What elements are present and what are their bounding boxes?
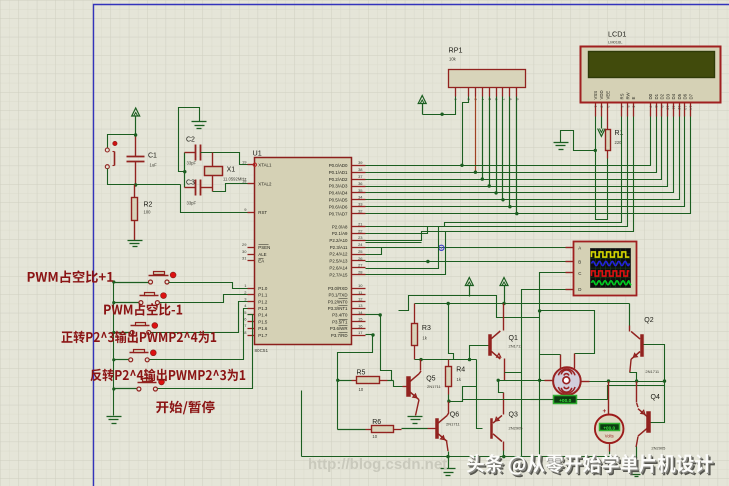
svg-text:LCD1: LCD1 (608, 30, 626, 39)
wire R5 left lead (338, 380, 352, 382)
svg-text:P0.5/AD5: P0.5/AD5 (329, 198, 348, 203)
svg-text:6: 6 (632, 106, 636, 108)
scope input C (566, 272, 574, 274)
wire Q4 collector down to ground (636, 437, 638, 448)
junction (blue) on P2.3 line (439, 245, 444, 250)
pin P0.4/AD4 (pin 35) right stub (352, 192, 366, 194)
wire bottom rail (302, 456, 610, 458)
scope trace C red (592, 271, 630, 276)
wire R5 right to Q5 base (394, 381, 403, 387)
transistor Q2 2N1711 (mirrored) (641, 335, 644, 357)
wire Q2 emitter to rail (630, 359, 631, 372)
wire LCD D5 to P0.5 (366, 117, 680, 200)
pin P1.4 (pin 5) left stub (248, 314, 255, 316)
svg-text:19: 19 (242, 160, 247, 165)
junction reset node (134, 183, 137, 186)
junction crystal left (183, 170, 186, 173)
transistor Q5 2N1711 (407, 377, 411, 397)
scope trace B blue (592, 261, 630, 265)
junction Q1 emitter / rail (497, 379, 500, 382)
resistor R4 (446, 367, 452, 387)
svg-text:2N2905: 2N2905 (651, 446, 666, 451)
label 反转P2^4输出PWMP2^3为1 (90, 369, 245, 382)
LCD LCD1 body (581, 47, 721, 103)
wire Q1 collector up to rail2 (503, 304, 505, 331)
wire R5 right lead (380, 380, 388, 382)
LCD pin D5 (pin 12) (679, 103, 681, 117)
wire node-A down to Q3 base (477, 360, 483, 429)
RP1 pin 7 stub (502, 88, 504, 97)
wire display feed (540, 399, 554, 401)
push button PWM占空比-1 (139, 301, 143, 305)
ground crystal top (192, 121, 207, 123)
svg-text:XTAL1: XTAL1 (258, 162, 272, 167)
svg-text:13: 13 (683, 106, 687, 110)
wire LCD D0 to P0.0 (366, 117, 651, 166)
wire Q4 emitter up to rail (637, 403, 638, 407)
svg-text:P0.2/AD2: P0.2/AD2 (329, 177, 348, 182)
wire +V rail1 (399, 296, 540, 318)
pin P3.5/T1 (pin 15) right stub (352, 321, 366, 323)
svg-text:10: 10 (358, 283, 363, 288)
pin P0.5/AD5 (pin 34) right stub (352, 199, 366, 201)
junction R4/Q6 collector node (447, 400, 450, 403)
motor top stub right (574, 354, 576, 369)
pin P2.4/A12 (pin 25) right stub (352, 254, 366, 256)
svg-text:9: 9 (660, 106, 664, 108)
wire C1 bottom to junction (135, 162, 137, 185)
svg-text:U1: U1 (253, 149, 262, 158)
wire button 正转P2^3输出PWMP2^4为1 to P1 (151, 302, 248, 333)
svg-text:PSEN: PSEN (258, 245, 270, 250)
wire LCD D7 to P0.7 (366, 117, 691, 214)
svg-text:C2: C2 (186, 137, 195, 144)
ground Q5 emitter (408, 416, 423, 418)
power terminal (VCC arrow) rail1 (465, 278, 473, 286)
svg-text:P1.1: P1.1 (258, 293, 268, 298)
pin P3.7/RD (pin 17) right stub (352, 335, 366, 337)
junction RP1 pin9 / P0.7 (515, 212, 518, 215)
scope input D (566, 289, 574, 291)
svg-text:RW: RW (625, 91, 630, 99)
RP1 pin 4 stub (482, 88, 484, 97)
wire motor left lead (545, 380, 554, 382)
wire RP1 pin2 to P0.0 net (463, 97, 469, 166)
svg-text:XTAL2: XTAL2 (258, 182, 272, 187)
pin P2.1/A9 (pin 22) right stub (352, 233, 366, 235)
wire rail2 zig to node-A (449, 304, 454, 360)
transistor Q3 2N2905 (PNP) (491, 419, 493, 439)
svg-text:+00.0: +00.0 (559, 398, 571, 404)
svg-text:P1.6: P1.6 (258, 326, 268, 331)
svg-text:80C51: 80C51 (255, 348, 269, 353)
wire drive line under motor (462, 399, 464, 401)
push button 正转P2^3输出PWMP2^4为1 (130, 331, 134, 335)
svg-text:P0.6/AD6: P0.6/AD6 (329, 204, 348, 209)
svg-text:8: 8 (654, 106, 658, 108)
svg-text:7: 7 (648, 106, 652, 108)
wire R6 left lead (338, 429, 366, 431)
wire Q5 collector up (419, 371, 421, 374)
svg-text:37: 37 (358, 174, 363, 179)
svg-text:14: 14 (358, 310, 363, 315)
svg-text:P2.6/A14: P2.6/A14 (329, 265, 348, 270)
svg-text:R1: R1 (615, 130, 624, 137)
junction rail2/Q1 collector (502, 302, 505, 305)
svg-text:R4: R4 (456, 367, 465, 374)
LCD pin D4 (pin 11) (673, 103, 675, 117)
pin P1.3 (pin 4) left stub (248, 308, 255, 310)
pin P0.6/AD6 (pin 33) right stub (352, 206, 366, 208)
crystal X1 body (205, 167, 223, 176)
wire motor-left rail (498, 380, 554, 382)
wire P2.2 jog to A line (366, 242, 422, 244)
LCD pin D6 (pin 13) (684, 103, 686, 117)
ground Q6 emitter (441, 468, 456, 470)
wire C2 right to XTAL1 (201, 153, 248, 165)
wire Q2 collector red (629, 326, 631, 332)
wire button PWM占空比-1 to P1 (160, 295, 248, 303)
svg-text:P2.7/A15: P2.7/A15 (329, 272, 348, 277)
wire Q6col to drive line (449, 400, 531, 402)
LCD pin D0 (pin 7) (650, 103, 652, 117)
svg-text:P1.7: P1.7 (258, 333, 268, 338)
svg-text:22: 22 (358, 228, 363, 233)
ground buttons (107, 416, 122, 418)
wire voltmeter bottom lead (609, 444, 611, 452)
svg-text:Q5: Q5 (426, 376, 435, 383)
voltmeter display (600, 424, 620, 431)
svg-text:28: 28 (358, 269, 363, 274)
buttons common ground bus (113, 283, 115, 416)
wire LCD E to P2.2 route (366, 117, 634, 241)
pin P2.5/A13 (pin 26) right stub (352, 260, 366, 262)
LCD pin RS (pin 4) (621, 103, 623, 117)
power terminal (VCC arrow) rail2 / Q1 (500, 278, 508, 286)
wire reset node to RST pin (181, 185, 248, 213)
svg-text:D3: D3 (665, 93, 670, 99)
junction rail / voltmeter+ (607, 379, 610, 382)
pin P1.5 (pin 6) left stub (248, 321, 255, 323)
wire Q3 collector down to bottom rail (503, 442, 505, 451)
wire Q3 emitter up to rail (503, 393, 505, 415)
push button reset (vertical) (105, 148, 109, 152)
svg-text:P3.4/T0: P3.4/T0 (332, 313, 348, 318)
svg-text:30: 30 (242, 249, 247, 254)
pin P3.4/T0 (pin 14) right stub (352, 314, 366, 316)
svg-text:21: 21 (358, 222, 363, 227)
svg-text:VDD: VDD (599, 90, 604, 99)
svg-text:33pF: 33pF (187, 201, 197, 206)
wire LCD D6 to P0.6 (366, 117, 685, 207)
svg-text:27: 27 (358, 263, 363, 268)
ground LCD VSS (554, 142, 569, 144)
wire R3 top lead (414, 304, 416, 324)
wire button 开始/暂停 left (114, 388, 137, 390)
junction VSS node (594, 149, 597, 152)
wire C3 left lead (185, 187, 196, 189)
svg-text:D6: D6 (683, 93, 688, 99)
wire P3.4 to R5/Q5 base (366, 314, 381, 316)
wire RP1 pin9 to P0.7 net (516, 97, 518, 214)
wire R4 bottom lead (448, 387, 450, 395)
svg-text:100: 100 (144, 210, 152, 215)
oscilloscope body (574, 242, 637, 296)
push button 反转P2^4输出PWMP2^3为1 (129, 358, 133, 362)
svg-text:10: 10 (666, 106, 670, 110)
svg-text:1uF: 1uF (150, 163, 158, 168)
svg-text:33pF: 33pF (187, 161, 197, 166)
IC U1 80C51 body (255, 158, 352, 345)
svg-text:33: 33 (358, 202, 363, 207)
pin P1.1 (pin 2) left stub (248, 294, 255, 296)
wire R4 top lead (448, 360, 450, 367)
svg-text:Volts: Volts (605, 433, 614, 438)
wire VSS to ground (595, 117, 597, 151)
pin dot XTAL1 (253, 163, 256, 166)
svg-text:D2: D2 (660, 93, 665, 99)
svg-text:C1: C1 (148, 153, 157, 160)
pin P1.2 (pin 3) left stub (248, 301, 255, 303)
pin P0.2/AD2 (pin 37) right stub (352, 179, 366, 181)
svg-text:10: 10 (359, 387, 364, 392)
wire bottom rail left vertical (301, 391, 303, 457)
LCD pin VDD (pin 2) (601, 103, 603, 117)
label 正转P2^3输出PWMP2^4为1 (62, 331, 217, 344)
wire RP1 pin3 to P0.1 net (red) (475, 97, 477, 173)
svg-text:36: 36 (358, 181, 363, 186)
junction rail / C-line (538, 379, 541, 382)
svg-text:P3.2/INT0: P3.2/INT0 (328, 299, 348, 304)
pin P3.3/INT1 (pin 13) right stub (352, 308, 366, 310)
wire button 反转P2^4输出PWMP2^3为1 to P1 (150, 309, 248, 360)
resistor R1 (606, 130, 611, 151)
svg-text:15: 15 (358, 317, 363, 322)
wire R3 bottom lead (414, 346, 416, 360)
push button 开始/暂停 (137, 387, 141, 391)
wire Q1 emitter branch to D line (505, 372, 522, 374)
junction rail / bases vertical (663, 379, 666, 382)
junction RP1 pin5 / P0.3 (488, 184, 491, 187)
svg-text:LM016L: LM016L (608, 40, 623, 45)
wire vcc to C1 top / button (108, 135, 136, 149)
svg-text:http://blog.csdn.net: http://blog.csdn.net (308, 456, 447, 473)
DC motor body (553, 367, 581, 395)
pin P0.7/AD7 (pin 32) right stub (352, 213, 366, 215)
pin P3.0/RXD (pin 10) right stub (352, 288, 366, 290)
RP1 pin 2 stub (468, 88, 470, 97)
transistor Q4 2N2905 (PNP mirrored) (647, 412, 651, 433)
svg-text:34: 34 (358, 195, 363, 200)
pin P3.6/WR (pin 16) right stub (352, 328, 366, 330)
respack RP1 body (449, 70, 526, 88)
RP1 pin 8 stub (509, 88, 511, 97)
pin P2.2/A10 (pin 23) right stub (352, 240, 366, 242)
wire LCD RW to P2.1 route (366, 117, 628, 234)
svg-text:P1.2: P1.2 (258, 299, 268, 304)
wire RP1 pin5 to P0.3 net (489, 97, 491, 187)
motor speed display (554, 396, 577, 404)
wire LCD D2 to P0.2 (366, 117, 662, 180)
wire bases vertical to Q4 base (651, 382, 665, 423)
junction node-A Q5 collector (419, 358, 422, 361)
svg-text:P2.0/A8: P2.0/A8 (332, 224, 348, 229)
svg-text:P1.3: P1.3 (258, 306, 268, 311)
wire RP1 pin1 to VCC (423, 97, 456, 115)
scope trace D green (592, 281, 631, 285)
svg-text:10: 10 (372, 434, 377, 439)
RP1 pin 6 stub (496, 88, 498, 97)
svg-text:39: 39 (358, 160, 363, 165)
svg-text:P2.2/A10: P2.2/A10 (329, 238, 348, 243)
svg-text:EA: EA (258, 258, 264, 263)
LCD pin VEE (pin 3) (607, 103, 609, 117)
pin P1.0 (pin 1) left stub (248, 288, 255, 290)
scope input B (566, 261, 574, 263)
pin P2.6/A14 (pin 27) right stub (352, 267, 366, 269)
resistor R2 top lead (134, 185, 136, 198)
wire Q2 base to bases vertical (644, 345, 665, 382)
svg-text:31: 31 (242, 256, 247, 261)
svg-text:R3: R3 (422, 325, 431, 332)
pin XTAL2 (pin 18) left stub (248, 183, 255, 185)
svg-text:C3: C3 (186, 179, 195, 186)
wire button PWM占空比+1 to P1 (169, 283, 248, 289)
voltmeter body (595, 415, 624, 444)
wire button PWM占空比+1 left (114, 282, 149, 284)
wire RP1 pin8 to P0.6 net (509, 97, 511, 207)
junction R5 left tap (336, 379, 339, 382)
svg-text:+00.0: +00.0 (603, 425, 615, 430)
RP1 pin 3 stub (475, 88, 477, 97)
wire motor right lead (582, 381, 590, 383)
svg-text:P3.0/RXD: P3.0/RXD (328, 286, 348, 291)
svg-text:D4: D4 (671, 93, 676, 99)
motor top stub left (560, 355, 562, 369)
junction rail2/R4 (447, 302, 450, 305)
svg-text:1: 1 (593, 106, 597, 108)
svg-text:P1.0: P1.0 (258, 286, 268, 291)
pin RST (pin 9) left stub (248, 212, 255, 214)
svg-text:C: C (578, 271, 581, 276)
transistor Q1 2N1711 (489, 335, 492, 356)
junction RP1 pin7 / P0.5 (501, 198, 504, 201)
svg-text:4: 4 (620, 106, 624, 108)
svg-text:P2.5/A13: P2.5/A13 (329, 259, 348, 264)
svg-text:B: B (578, 259, 581, 264)
pin P3.1/TXD (pin 11) right stub (352, 294, 366, 296)
wire VEE to R1 top (607, 117, 609, 130)
svg-text:32: 32 (358, 209, 363, 214)
svg-text:14: 14 (689, 106, 693, 110)
resistor R3 (412, 324, 418, 346)
wire LCD RS to P2.0 route (366, 117, 622, 227)
wire R6 right lead to Q6 base (394, 429, 402, 431)
capacitor C3 plates (195, 180, 197, 196)
svg-text:5: 5 (626, 106, 630, 108)
svg-text:13: 13 (358, 303, 363, 308)
svg-text:P2.1/A9: P2.1/A9 (332, 231, 348, 236)
wire RP1 pin6 to P0.4 net (496, 97, 498, 193)
svg-text:29: 29 (242, 242, 247, 247)
junction C-line / +V rail (538, 309, 541, 312)
power terminal (down arrow) VDD (601, 117, 603, 129)
LCD pin E (pin 6) (633, 103, 635, 117)
wire X1 top lead (212, 153, 214, 167)
svg-text:P2.3/A11: P2.3/A11 (330, 245, 348, 250)
wire C2 left lead (185, 152, 196, 154)
svg-text:P2.4/A12: P2.4/A12 (329, 252, 348, 257)
LCD screen (589, 52, 715, 78)
LCD pin RW (pin 5) (627, 103, 629, 117)
junction RP1 pin4 / P0.2 (481, 177, 484, 180)
svg-text:38: 38 (358, 167, 363, 172)
svg-text:2N2905: 2N2905 (509, 426, 524, 431)
RP1 pin 5 stub (489, 88, 491, 97)
wire motor-right rail (590, 381, 665, 383)
label PWM占空比+1 (28, 270, 113, 283)
svg-text:RS: RS (620, 93, 625, 99)
wire X1 bottom to XTAL2 (212, 176, 214, 192)
svg-text:11: 11 (671, 106, 675, 110)
svg-text:P3.6/WR: P3.6/WR (330, 326, 348, 331)
capacitor C2 plates (195, 145, 197, 161)
svg-text:2N1711: 2N1711 (509, 344, 523, 349)
wire C2/C3 left bus (184, 153, 186, 188)
svg-text:26: 26 (358, 256, 363, 261)
pin EA (pin 31) left stub (248, 260, 255, 262)
svg-text:P0.3/AD3: P0.3/AD3 (329, 184, 348, 189)
svg-text:D1: D1 (654, 93, 659, 99)
pin P3.2/INT0 (pin 12) right stub (352, 301, 366, 303)
svg-text:X1: X1 (227, 167, 236, 174)
svg-text:Q4: Q4 (651, 394, 660, 401)
RP1 pin 1 stub (455, 88, 457, 97)
junction Q6 emitter / bottom rail (446, 455, 449, 458)
svg-text:D: D (578, 287, 581, 292)
wire voltmeter top lead (608, 382, 610, 415)
wire LCD D1 to P0.1 (366, 117, 657, 173)
ground below R2 (128, 240, 143, 242)
svg-text:P0.1/AD1: P0.1/AD1 (329, 170, 348, 175)
LCD pin D7 (pin 14) (690, 103, 692, 117)
svg-text:3: 3 (606, 106, 610, 108)
LCD pin D3 (pin 10) (667, 103, 669, 117)
wire button 反转P2^4输出PWMP2^3为1 left (114, 359, 129, 361)
capacitor C1 plates (127, 156, 145, 158)
wire LCD D3 to P0.3 (366, 117, 668, 187)
junction RP1 pin8 / P0.6 (508, 205, 511, 208)
svg-text:E: E (631, 97, 636, 100)
svg-text:12: 12 (358, 297, 363, 302)
resistor R2 (132, 198, 138, 221)
svg-text:Q3: Q3 (509, 412, 518, 419)
svg-text:D7: D7 (688, 93, 693, 99)
svg-text:VSS: VSS (593, 91, 598, 100)
wire crystal ground branch (179, 108, 200, 172)
scope trace A yellow (592, 252, 630, 257)
wire reset node horizontal (108, 169, 181, 185)
wire button 开始/暂停 to P1 (158, 315, 253, 389)
svg-text:17: 17 (358, 330, 363, 335)
wire motor-top right branch (540, 311, 595, 354)
svg-text:D0: D0 (648, 93, 653, 99)
junction RP1 pin2 / P0.0 (460, 164, 463, 167)
svg-text:RST: RST (258, 210, 267, 215)
wire R1 bottom lead (607, 151, 609, 159)
wire scope C left route (540, 273, 566, 457)
transistor Q6 2N1711 (436, 419, 439, 439)
